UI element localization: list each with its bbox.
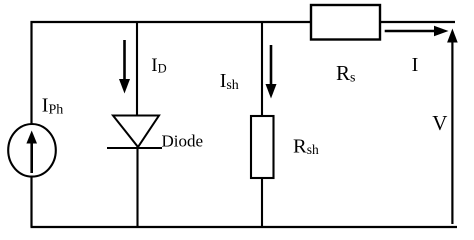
voltage arrow V	[447, 29, 458, 225]
svg-text:IPh: IPh	[42, 95, 63, 118]
svg-text:I: I	[412, 54, 419, 76]
svg-text:Ish: Ish	[220, 70, 239, 93]
current arrow I output	[385, 26, 449, 37]
resistor Rs	[311, 5, 380, 40]
svg-text:Diode: Diode	[162, 132, 204, 151]
current arrow ID	[119, 40, 130, 94]
wire top rail right: Rs to right end	[380, 21, 455, 23]
wire shunt branch lower	[261, 177, 263, 227]
svg-text:Rs: Rs	[336, 61, 355, 86]
resistor Rsh	[251, 116, 274, 178]
svg-text:ID: ID	[151, 55, 166, 76]
wire bottom rail	[31, 226, 458, 228]
svg-text:V: V	[432, 111, 447, 135]
svg-text:Rsh: Rsh	[293, 135, 319, 157]
current source IPh	[8, 124, 56, 177]
diode D1	[107, 116, 162, 149]
current arrow Ish	[266, 45, 277, 99]
wire shunt branch upper	[261, 21, 263, 117]
wire diode branch upper	[136, 21, 138, 117]
wire top rail left: top-left corner to Rs	[32, 22, 312, 227]
wire diode branch lower	[136, 146, 138, 227]
